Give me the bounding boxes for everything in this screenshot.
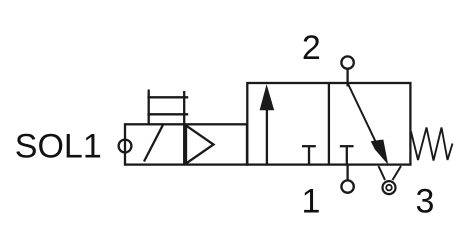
port 1 stem <box>346 165 348 181</box>
port 3 exhaust funnel right <box>393 166 402 180</box>
valve body <box>247 83 410 165</box>
blocked port T (right square) stem <box>346 146 348 164</box>
port 2 circle <box>341 56 353 68</box>
return spring <box>411 128 453 161</box>
svg-text:2: 2 <box>302 29 321 67</box>
port 1 circle <box>341 180 353 192</box>
blocked port T (left square) stem <box>308 146 310 164</box>
port 3 outer circle <box>383 181 396 194</box>
port 3 inner circle <box>386 185 392 191</box>
electrical connection circle <box>119 140 132 153</box>
solenoid pin left post <box>148 90 150 125</box>
solenoid pin bottom rung <box>147 113 188 115</box>
svg-text:3: 3 <box>416 183 435 221</box>
svg-text:1: 1 <box>302 183 321 221</box>
solenoid pin top rung <box>147 96 188 98</box>
port 3 exhaust funnel left <box>379 166 386 180</box>
blocked port T (right square) bar <box>340 145 354 147</box>
port 2 stem <box>346 69 348 87</box>
blocked port T (left square) bar <box>302 145 316 147</box>
up-arrow shaft (left square 1->2 path) <box>266 106 268 165</box>
diagonal 2->3 shaft (right square) <box>348 83 376 143</box>
solenoid diagonal stroke <box>144 125 163 162</box>
solenoid box divider <box>183 124 185 164</box>
up-arrow head <box>260 84 275 110</box>
diagonal 2->3 arrowhead <box>371 140 389 165</box>
solenoid pin right post <box>183 91 185 124</box>
pilot triangle <box>186 126 214 164</box>
solenoid box (coil + pilot cells) <box>125 124 247 164</box>
valve position divider <box>328 83 330 165</box>
svg-text:SOL1: SOL1 <box>15 128 102 166</box>
